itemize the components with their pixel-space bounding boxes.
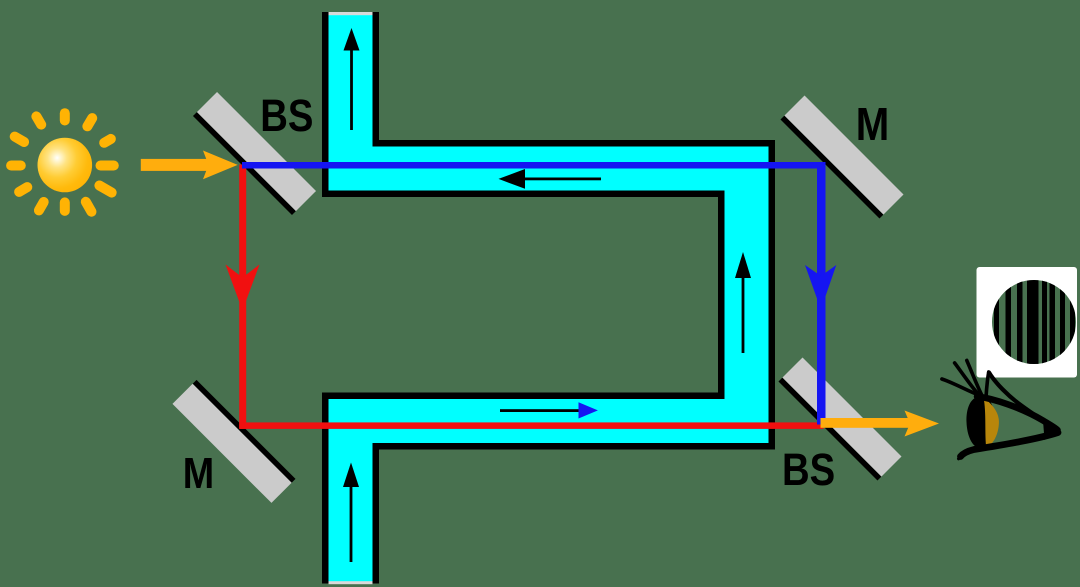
- svg-text:M: M: [183, 449, 214, 498]
- label M1: [856, 98, 890, 150]
- red beam arrowhead (down): [226, 265, 260, 311]
- svg-text:BS: BS: [782, 444, 835, 495]
- red beam horizontal: [239, 422, 823, 429]
- label BS2: [782, 444, 835, 495]
- sun disc: [38, 138, 93, 193]
- tube bottom cap: [329, 581, 373, 584]
- mirror M2 (bottom left): [172, 380, 295, 503]
- red beam vertical: [239, 165, 246, 429]
- sun rays: [11, 113, 114, 212]
- beam splitter BS1 (top left): [193, 92, 316, 215]
- flow arrow bottom horizontal tube (pointing right, blue head): [500, 402, 598, 418]
- screen white box: [977, 267, 1078, 378]
- water tube outline: [351, 12, 747, 584]
- mirror M1 (top right): [780, 95, 903, 218]
- beam splitter BS2 (bottom right): [778, 357, 901, 480]
- flow arrow bottom vertical tube (pointing up): [343, 463, 359, 563]
- flow arrow right vertical tube (pointing up): [735, 252, 751, 353]
- blue beam arrowhead (down): [805, 265, 836, 310]
- flow arrow top vertical tube: [344, 28, 360, 130]
- blue beam horizontal: [242, 162, 824, 169]
- label M2: [183, 449, 214, 498]
- flow arrow top horizontal tube (pointing left): [499, 169, 602, 189]
- svg-text:M: M: [856, 98, 890, 150]
- interference fringe pattern: [992, 270, 1076, 374]
- tube top cap: [329, 12, 373, 15]
- eye: [942, 360, 1061, 458]
- orange input beam arrow: [141, 151, 238, 180]
- svg-text:BS: BS: [260, 90, 313, 141]
- label BS1: [260, 90, 313, 141]
- water tube fill: [351, 12, 747, 584]
- blue beam vertical: [817, 162, 826, 425]
- orange output beam arrow: [821, 411, 940, 437]
